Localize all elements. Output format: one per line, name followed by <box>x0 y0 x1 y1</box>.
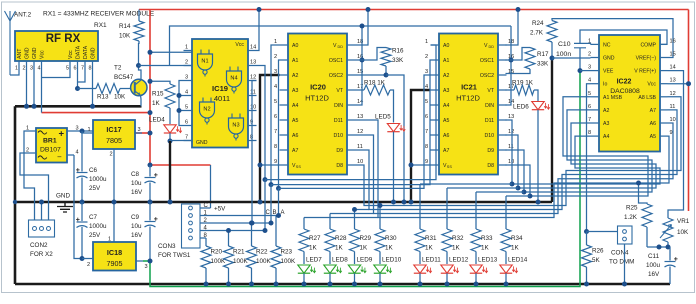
svg-text:4: 4 <box>425 84 428 90</box>
wire RF RX pin7 data join <box>78 71 86 82</box>
capacitor C7 <box>76 202 107 259</box>
svg-text:LED13: LED13 <box>478 257 498 264</box>
wire A row <box>279 75 431 188</box>
svg-text:SS: SS <box>447 165 453 169</box>
svg-text:8: 8 <box>274 144 277 150</box>
svg-text:3: 3 <box>30 66 33 72</box>
node LED4 cathode <box>168 139 173 144</box>
svg-text:4: 4 <box>274 84 277 90</box>
wire RF RX pin2 to 0V <box>26 71 28 106</box>
node IC21 vss <box>409 163 414 168</box>
svg-text:B: B <box>273 210 277 216</box>
svg-text:N4: N4 <box>230 76 237 82</box>
decoder IC21 HT12D <box>425 34 514 175</box>
svg-text:15: 15 <box>670 52 676 58</box>
svg-text:14: 14 <box>670 65 676 71</box>
svg-text:6: 6 <box>74 66 77 72</box>
wire R17 bottom to OSC2 <box>506 69 531 74</box>
svg-text:ANT.2: ANT.2 <box>14 12 32 19</box>
svg-text:A2: A2 <box>443 73 449 79</box>
wire +5V red down to node <box>149 113 151 165</box>
svg-text:6: 6 <box>185 120 188 126</box>
label +5V <box>214 206 226 213</box>
IC18 pins <box>86 237 148 271</box>
svg-text:2: 2 <box>110 152 113 158</box>
resistor R26 <box>582 232 605 287</box>
svg-text:A: A <box>281 210 285 216</box>
svg-text:10: 10 <box>508 159 514 165</box>
node C9 on green <box>148 259 153 264</box>
LED10 <box>374 252 402 287</box>
wire RF RX pin4 Vcc down <box>41 71 43 113</box>
wire gnd node to IC22 GND pin <box>552 57 591 59</box>
svg-text:13: 13 <box>508 114 514 120</box>
svg-text:DATA: DATA <box>83 45 89 59</box>
svg-text:16V: 16V <box>131 189 143 196</box>
RF RX pin labels and stubs <box>15 45 97 71</box>
wire +5V tap to IC19 pin1 <box>150 51 192 53</box>
node Io node <box>584 229 589 234</box>
decoder IC20 HT12D <box>274 34 363 175</box>
svg-text:CON2: CON2 <box>30 242 48 249</box>
regulator IC17 7805 <box>93 120 135 149</box>
wire IC21 Vss to black <box>411 164 431 166</box>
svg-text:100K: 100K <box>281 258 297 265</box>
capacitor C9 <box>131 202 158 261</box>
svg-text:14: 14 <box>250 45 256 51</box>
regulator IC18 7905 <box>93 242 136 271</box>
svg-text:BR1: BR1 <box>43 138 57 145</box>
svg-text:V: V <box>484 43 488 49</box>
svg-text:R29: R29 <box>360 235 372 242</box>
svg-text:C10: C10 <box>558 41 571 48</box>
svg-text:1: 1 <box>425 39 428 45</box>
svg-text:7: 7 <box>425 129 428 135</box>
svg-text:10u: 10u <box>131 180 142 187</box>
wire OSC2 down <box>386 75 404 202</box>
svg-text:1K: 1K <box>385 245 394 252</box>
wire IC20 A0 to B line <box>271 45 280 185</box>
svg-text:+: + <box>59 129 65 140</box>
node IC21 gnd bus <box>409 200 414 205</box>
node VEE green node <box>578 68 583 73</box>
svg-text:7: 7 <box>588 117 591 123</box>
svg-text:Io: Io <box>603 82 607 88</box>
node +5V at x150 y112 <box>148 110 153 115</box>
svg-text:SS: SS <box>296 165 302 169</box>
svg-text:A6: A6 <box>443 133 449 139</box>
wire IC20 OSC1 to R16 <box>356 48 387 61</box>
wire GND bus horizontal <box>15 201 552 204</box>
svg-text:D9: D9 <box>487 148 494 154</box>
wire IC18 pin2 to C7 <box>82 258 86 260</box>
svg-text:7: 7 <box>185 135 188 141</box>
svg-text:OSC1: OSC1 <box>329 58 343 64</box>
svg-text:2: 2 <box>425 54 428 60</box>
svg-text:100K: 100K <box>256 258 272 265</box>
svg-text:GND: GND <box>603 56 615 62</box>
svg-text:N2: N2 <box>203 107 210 113</box>
svg-text:A2: A2 <box>603 108 609 114</box>
svg-text:VT: VT <box>487 88 494 94</box>
svg-text:10K: 10K <box>677 229 689 236</box>
wire data to IC20 OSC1 DIN <box>356 26 363 105</box>
node data join <box>75 86 80 91</box>
resistor R23 <box>271 216 296 287</box>
svg-text:HT12D: HT12D <box>456 94 480 103</box>
LED11 <box>414 252 441 287</box>
svg-text:DIN: DIN <box>334 103 343 109</box>
transistor T2 BC547 <box>114 65 147 96</box>
wire A down to row1 <box>276 188 281 218</box>
svg-text:D9: D9 <box>336 148 343 154</box>
svg-text:LED6: LED6 <box>513 104 529 111</box>
wire RF RX pin6 data <box>77 71 79 89</box>
svg-text:IC22: IC22 <box>617 79 632 86</box>
resistor R14 <box>119 10 144 45</box>
svg-text:5: 5 <box>588 91 591 97</box>
svg-text:R24: R24 <box>532 20 544 27</box>
gate N2 <box>200 98 215 125</box>
svg-text:10u: 10u <box>131 223 142 230</box>
node +5V at x150 y133 <box>148 131 153 136</box>
svg-text:1000u: 1000u <box>89 176 107 183</box>
svg-text:11: 11 <box>250 90 256 96</box>
svg-text:RX1: RX1 <box>94 22 107 29</box>
svg-text:R17: R17 <box>537 51 549 58</box>
wire LED6 anode <box>534 90 538 102</box>
node CON2 gnd <box>39 200 44 205</box>
svg-text:CON3: CON3 <box>158 243 176 250</box>
svg-text:A3: A3 <box>603 121 609 127</box>
svg-text:VT: VT <box>336 88 343 94</box>
node IC22 vcc rail <box>686 81 691 86</box>
svg-text:A7: A7 <box>292 148 298 154</box>
wire T2 emitter to 0V <box>140 95 143 106</box>
svg-text:R33: R33 <box>481 235 493 242</box>
svg-text:6: 6 <box>425 114 428 120</box>
node B line <box>269 182 274 187</box>
svg-text:A6: A6 <box>650 121 656 127</box>
wire 0V black top-left bus <box>15 105 142 108</box>
svg-text:A3: A3 <box>292 88 298 94</box>
svg-text:GND: GND <box>25 47 31 59</box>
wire B down to row2 <box>269 185 274 226</box>
svg-text:2: 2 <box>274 54 277 60</box>
resistor R22 <box>247 221 272 287</box>
IC19 4011 quad NAND <box>192 39 248 148</box>
IC17 pins <box>86 127 142 158</box>
svg-text:6: 6 <box>274 114 277 120</box>
svg-text:3: 3 <box>425 69 428 75</box>
svg-text:A5: A5 <box>443 118 449 124</box>
svg-text:D11: D11 <box>485 118 494 124</box>
svg-text:COMP: COMP <box>640 42 656 48</box>
node IC21 vdd rail <box>516 7 521 12</box>
svg-text:4011: 4011 <box>214 94 230 103</box>
wire R24 top to VREF- <box>552 19 673 58</box>
wire B row <box>271 60 431 185</box>
wire IC18 out green <box>143 71 580 287</box>
wire bottom 0V rail <box>15 283 670 286</box>
svg-text:A7: A7 <box>650 108 656 114</box>
resistor R17 <box>525 48 549 69</box>
node A line <box>276 186 281 191</box>
wire IC17 pin1 from BR1 <box>82 131 86 133</box>
wire CON3 C row <box>200 207 211 209</box>
svg-text:3: 3 <box>138 127 141 133</box>
svg-text:25V: 25V <box>89 185 101 192</box>
wire 0V black left vertical <box>14 106 17 284</box>
svg-text:3: 3 <box>185 75 188 81</box>
svg-text:LED8: LED8 <box>332 257 348 264</box>
svg-text:7: 7 <box>81 66 84 72</box>
wire GND riser to IC22 GND <box>551 58 553 202</box>
node C7 neg <box>80 256 85 261</box>
potentiometer VR1 <box>660 218 690 247</box>
svg-text:12: 12 <box>357 129 363 135</box>
resistor R20 <box>201 238 226 287</box>
svg-text:A8 LSB: A8 LSB <box>638 95 656 101</box>
svg-text:C: C <box>266 210 271 216</box>
svg-text:T2: T2 <box>114 65 122 72</box>
svg-text:2: 2 <box>588 52 591 58</box>
svg-text:9: 9 <box>274 159 277 165</box>
svg-text:A3: A3 <box>443 88 449 94</box>
svg-text:13: 13 <box>250 60 256 66</box>
connector CON3 <box>158 204 200 259</box>
svg-text:1K: 1K <box>309 245 318 252</box>
node LED4 gnd bus <box>168 200 173 205</box>
svg-text:10: 10 <box>250 105 256 111</box>
wire IC20 A2 ground black <box>260 75 280 202</box>
wire BR1 pin2 to CON2 <box>20 153 49 220</box>
wire IC20 VDD to rail <box>356 10 369 46</box>
svg-text:+5V: +5V <box>214 206 226 213</box>
svg-text:RX1 = 433MHZ RECEIVER MODULE: RX1 = 433MHZ RECEIVER MODULE <box>43 11 155 18</box>
wire R15 feed from +5V <box>150 81 170 84</box>
svg-text:TO DMM: TO DMM <box>609 259 634 266</box>
svg-text:11: 11 <box>670 104 676 110</box>
svg-text:8: 8 <box>588 130 591 136</box>
node GND bus left corner <box>13 200 17 204</box>
svg-text:OSC2: OSC2 <box>480 73 494 79</box>
svg-text:R25: R25 <box>626 205 638 212</box>
svg-text:1.2K: 1.2K <box>624 214 638 221</box>
bridge rectifier BR1 DB107 <box>36 128 67 163</box>
svg-text:FOR X2: FOR X2 <box>30 251 53 258</box>
resistor R25 <box>624 204 652 247</box>
resistor R33 <box>471 192 493 252</box>
svg-text:3: 3 <box>274 69 277 75</box>
svg-text:R20: R20 <box>211 249 223 256</box>
svg-text:5: 5 <box>425 99 428 105</box>
svg-text:BC547: BC547 <box>114 74 134 81</box>
resistor R13 <box>78 84 135 101</box>
svg-text:7: 7 <box>274 129 277 135</box>
labels C B A <box>266 210 285 216</box>
wire IC17 pin2 down <box>113 156 115 242</box>
node pin2 gnd <box>24 104 29 109</box>
svg-text:N1: N1 <box>201 59 208 65</box>
svg-text:IC20: IC20 <box>310 83 326 92</box>
connector CON2 <box>29 220 55 258</box>
svg-text:4: 4 <box>38 66 41 72</box>
svg-text:D10: D10 <box>484 133 494 139</box>
svg-text:1: 1 <box>274 39 277 45</box>
svg-text:11: 11 <box>508 144 514 150</box>
svg-text:12: 12 <box>670 91 676 97</box>
node IC20 vss <box>258 163 263 168</box>
LED12 <box>441 252 469 287</box>
svg-text:LED14: LED14 <box>508 257 528 264</box>
node +5V at x150 y165 <box>148 163 153 168</box>
node BR1 out <box>80 129 85 134</box>
svg-text:1: 1 <box>185 45 188 51</box>
wire +5V red from RF RX Vcc <box>42 112 151 114</box>
wire RF RX pin5 Vcc join <box>42 71 71 78</box>
wire CON3 row 1 <box>200 215 279 217</box>
svg-text:VEE: VEE <box>603 69 614 75</box>
wire collector node to IC19 pin2 <box>139 65 193 67</box>
svg-text:R26: R26 <box>592 248 604 255</box>
wire C down to row4 <box>263 180 268 233</box>
wire IC19 Vcc to +5V <box>257 10 260 51</box>
wire R24 bottom to gnd node <box>551 42 553 58</box>
resistor R16 <box>381 48 404 66</box>
svg-text:1K: 1K <box>511 245 520 252</box>
svg-text:33K: 33K <box>537 61 549 68</box>
wire R16 bottom to OSC2 <box>356 66 387 75</box>
wire BR1 pin3 to IC17 <box>74 130 93 132</box>
svg-text:−: − <box>57 153 62 162</box>
svg-text:4: 4 <box>76 150 79 156</box>
wire +5V red top rail <box>139 9 689 11</box>
svg-text:100u: 100u <box>646 262 661 269</box>
RF receiver module RX1 <box>15 22 107 61</box>
svg-text:GND: GND <box>196 140 208 146</box>
svg-text:C7: C7 <box>89 214 98 221</box>
svg-text:3: 3 <box>145 264 148 270</box>
wire VEE pin to green <box>580 70 591 72</box>
node pin3 gnd <box>32 104 37 109</box>
wire IC21 OSC1 to R17 <box>506 48 531 61</box>
svg-text:R16: R16 <box>392 48 404 55</box>
svg-text:A7: A7 <box>443 148 449 154</box>
node data tap IC21 <box>509 58 514 63</box>
resistor R27 <box>299 218 321 252</box>
node OSC1 tap <box>360 58 365 63</box>
wire IC21 data bus to DAC <box>506 97 661 199</box>
wire CON3 row 4 <box>200 230 265 232</box>
svg-text:C6: C6 <box>89 167 98 174</box>
svg-text:16V: 16V <box>131 232 143 239</box>
svg-text:1K: 1K <box>452 245 461 252</box>
wire VR1 R25 C11 node <box>647 245 671 250</box>
wire LED6 cathode to bus <box>537 110 539 202</box>
svg-text:LED10: LED10 <box>382 257 402 264</box>
node data tap IC20 <box>360 24 365 29</box>
resistor R30 <box>375 203 397 252</box>
node CON4 gnd <box>622 282 627 287</box>
node C6 gnd <box>80 200 85 205</box>
svg-text:R22: R22 <box>256 249 268 256</box>
svg-text:HT12D: HT12D <box>305 94 329 103</box>
resistor R19 <box>506 80 534 96</box>
svg-text:9: 9 <box>425 159 428 165</box>
node pin8 gnd <box>90 104 95 109</box>
node collector junction <box>136 63 141 68</box>
svg-text:1K: 1K <box>425 245 434 252</box>
wire IC22 Vcc to red rail <box>668 83 689 85</box>
svg-text:7805: 7805 <box>106 136 122 145</box>
wire CON3 row 2 <box>200 222 271 224</box>
svg-text:R21: R21 <box>233 249 245 256</box>
svg-text:A0: A0 <box>443 43 449 49</box>
node R15 feed <box>148 79 153 84</box>
svg-text:1000u: 1000u <box>89 223 107 230</box>
node IC22 gnd node <box>550 56 555 61</box>
svg-text:5: 5 <box>274 99 277 105</box>
resistor R32 <box>442 188 464 252</box>
svg-text:D10: D10 <box>333 133 343 139</box>
svg-text:V: V <box>333 43 337 49</box>
wire IC20 data bus to DAC <box>356 97 682 218</box>
svg-text:6: 6 <box>588 104 591 110</box>
svg-text:10K: 10K <box>114 94 126 101</box>
LED5 <box>375 114 405 203</box>
svg-text:N3: N3 <box>232 123 239 129</box>
wire IC20 Vss to black <box>260 164 280 166</box>
wire IC19 N1 out to N2 in <box>177 81 184 126</box>
resistor R21 <box>224 228 249 287</box>
svg-text:13: 13 <box>357 114 363 120</box>
DAC IC22 DAC0808 <box>588 35 676 152</box>
svg-text:OSC1: OSC1 <box>480 58 494 64</box>
svg-text:GND: GND <box>32 47 38 59</box>
svg-text:4: 4 <box>185 90 188 96</box>
wire CON2 mid pin to GND <box>41 202 43 220</box>
wire rows extend left <box>304 210 378 218</box>
ground symbol <box>56 193 73 213</box>
node pin1 tap <box>148 50 153 55</box>
wire LED4 node to GND bus black <box>169 141 171 202</box>
svg-text:4: 4 <box>588 78 591 84</box>
wire C10 top to NC pin <box>586 43 591 44</box>
svg-text:2: 2 <box>185 60 188 66</box>
node LED5 gnd <box>391 200 396 205</box>
svg-text:DD: DD <box>489 45 495 49</box>
svg-text:IC21: IC21 <box>461 83 477 92</box>
wire BR1 pin1 to CON2 <box>24 131 35 220</box>
svg-text:V REF(+): V REF(+) <box>634 69 656 75</box>
resistor R29 <box>350 207 372 252</box>
LED8 <box>324 252 348 287</box>
svg-text:1: 1 <box>15 66 18 72</box>
svg-text:CON4: CON4 <box>611 250 629 257</box>
svg-text:9: 9 <box>670 130 673 136</box>
svg-text:A1 MSB: A1 MSB <box>603 95 623 101</box>
svg-text:A1: A1 <box>292 58 298 64</box>
svg-text:2: 2 <box>23 66 26 72</box>
svg-text:R30: R30 <box>385 235 397 242</box>
wire data to IC21 OSC1 DIN <box>506 26 512 105</box>
wire +5V red to IC17 pin 3 <box>135 132 150 134</box>
svg-text:R15: R15 <box>152 91 164 98</box>
LED9 <box>348 252 372 287</box>
svg-text:33K: 33K <box>392 57 404 64</box>
svg-text:D8: D8 <box>487 163 494 169</box>
